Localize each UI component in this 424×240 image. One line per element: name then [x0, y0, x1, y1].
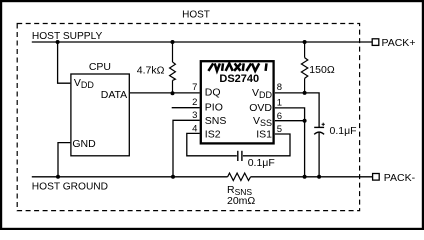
svg-text:DS2740: DS2740: [219, 73, 259, 85]
svg-text:HOST GROUND: HOST GROUND: [32, 181, 108, 192]
capacitor C2 0.1uF plates: [238, 151, 242, 161]
capacitor C1 0.1uF polarized plates: [314, 127, 324, 134]
resistor R1 4.7kOhm: [170, 42, 176, 93]
svg-text:PACK+: PACK+: [382, 37, 416, 49]
svg-text:2: 2: [192, 97, 197, 108]
wire capacitor to IS1 pin5: [243, 134, 290, 156]
junction SNS/ground: [171, 175, 175, 179]
svg-text:8: 8: [277, 82, 282, 93]
C1 plus sign: [322, 123, 325, 126]
wire supply to CPU VDD: [58, 42, 71, 83]
wire SNS pin3 to ground: [173, 120, 200, 177]
terminal PACK-: [373, 174, 380, 181]
svg-text:4.7kΩ: 4.7kΩ: [137, 65, 165, 77]
svg-text:PIO: PIO: [205, 102, 223, 114]
svg-text:HOST SUPPLY: HOST SUPPLY: [32, 31, 103, 42]
svg-text:OVD: OVD: [249, 102, 272, 114]
svg-text:HOST: HOST: [182, 10, 210, 21]
MAXIM logo: [208, 63, 266, 71]
junction CPU GND/ground: [56, 175, 60, 179]
wire IS2 pin4 loop to capacitor: [187, 133, 237, 155]
svg-text:3: 3: [192, 110, 197, 121]
wire CPU GND to ground: [58, 143, 70, 177]
svg-text:1: 1: [277, 98, 282, 109]
svg-text:IS2: IS2: [205, 129, 221, 141]
junction R2/VDD pin8: [303, 91, 307, 95]
svg-text:7: 7: [192, 82, 197, 93]
svg-text:150Ω: 150Ω: [309, 64, 335, 76]
svg-text:DATA: DATA: [101, 89, 127, 101]
wire host supply rail: [32, 41, 372, 43]
junction pin6 net/ground: [303, 175, 307, 179]
host dashed boundary: [17, 24, 359, 211]
wire DATA to DQ pin7: [130, 92, 200, 94]
pin 2 PIO stub wire: [172, 107, 200, 109]
IC U1 DS2740 box: [201, 61, 274, 143]
CPU box: [71, 74, 129, 156]
junction C1/ground: [317, 175, 321, 179]
junction supply/R1: [171, 40, 175, 44]
junction supply/CPU VDD: [56, 40, 60, 44]
svg-text:GND: GND: [72, 138, 96, 150]
wire host ground rail (left of RSNS): [32, 176, 228, 178]
svg-text:20mΩ: 20mΩ: [227, 195, 255, 207]
terminal PACK+: [372, 39, 379, 46]
svg-text:PACK-: PACK-: [384, 172, 416, 184]
wire host ground rail (right of RSNS): [251, 176, 373, 178]
svg-text:SNS: SNS: [205, 115, 227, 127]
resistor R2 150Ohm: [301, 42, 307, 93]
wire OVD pin1 to VSS pin6 to ground: [275, 108, 305, 177]
junction supply/R2: [303, 40, 307, 44]
junction R1/DQ: [171, 91, 175, 95]
junction OVD/VSS: [303, 119, 307, 123]
svg-text:DQ: DQ: [205, 87, 221, 99]
wire C1 to ground: [318, 133, 320, 177]
svg-text:0.1μF: 0.1μF: [330, 125, 357, 137]
svg-text:IS1: IS1: [256, 129, 272, 141]
svg-text:4: 4: [192, 123, 197, 134]
svg-text:0.1μF: 0.1μF: [248, 157, 275, 169]
wire VSS pin6 stub: [275, 120, 305, 122]
svg-text:5: 5: [277, 124, 282, 135]
wire VDD pin8 to bypass: [275, 93, 319, 127]
svg-text:CPU: CPU: [89, 61, 111, 73]
resistor RSNS 20mOhm zigzag: [228, 173, 251, 180]
